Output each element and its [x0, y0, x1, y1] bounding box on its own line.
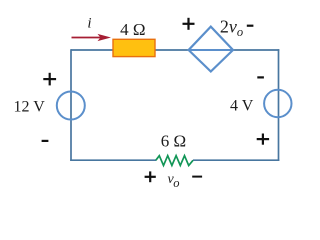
wire top-left segment	[71, 49, 114, 51]
resistor 6Ω (zigzag)	[156, 156, 193, 166]
wire bottom-right segment	[193, 159, 279, 161]
svg-text:6 Ω: 6 Ω	[161, 132, 186, 151]
svg-text:i: i	[87, 16, 91, 32]
wire top-right segment	[233, 49, 279, 51]
dependent source 2vo (diamond)	[189, 27, 233, 72]
wire bottom-left segment	[70, 159, 156, 161]
label - (dependent source right)	[247, 25, 254, 27]
label - (vo right)	[192, 176, 202, 178]
resistor 4Ω (rectangle body)	[113, 39, 155, 56]
svg-text:4 Ω: 4 Ω	[120, 20, 145, 39]
wire left segment	[70, 49, 72, 161]
label + (4V bottom)	[257, 134, 269, 145]
svg-text:12 V: 12 V	[14, 99, 46, 116]
label + (vo left)	[145, 171, 156, 182]
label + (12V top)	[43, 73, 56, 86]
voltage source 4 V (circle)	[264, 90, 291, 117]
wire right segment	[278, 49, 280, 161]
label + (dependent source left)	[183, 18, 195, 30]
current arrow i	[72, 34, 112, 41]
voltage source 12 V (circle)	[57, 92, 85, 120]
label - (12V bottom)	[42, 140, 49, 142]
wire top-middle segment	[154, 49, 189, 51]
label - (4V top)	[257, 76, 264, 78]
svg-text:4 V: 4 V	[230, 98, 254, 115]
